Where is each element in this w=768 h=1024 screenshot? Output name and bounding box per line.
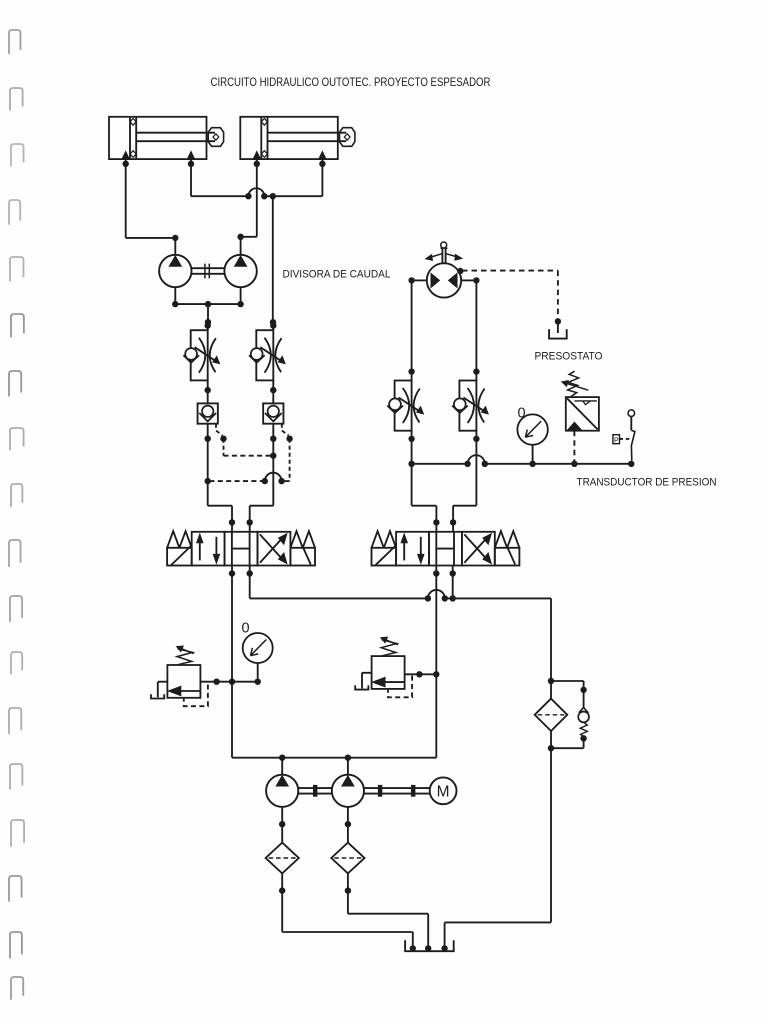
svg-text:PRESOSTATO: PRESOSTATO [535, 351, 603, 363]
svg-text:0: 0 [518, 406, 526, 422]
svg-text:TRANSDUCTOR DE PRESION: TRANSDUCTOR DE PRESION [577, 477, 717, 489]
svg-text:0: 0 [242, 621, 250, 637]
svg-text:P: P [614, 438, 619, 445]
svg-text:CIRCUITO HIDRAULICO OUTOTEC. P: CIRCUITO HIDRAULICO OUTOTEC. PROYECTO ES… [211, 76, 491, 89]
svg-text:M: M [437, 784, 450, 801]
svg-text:DIVISORA DE CAUDAL: DIVISORA DE CAUDAL [283, 269, 391, 281]
